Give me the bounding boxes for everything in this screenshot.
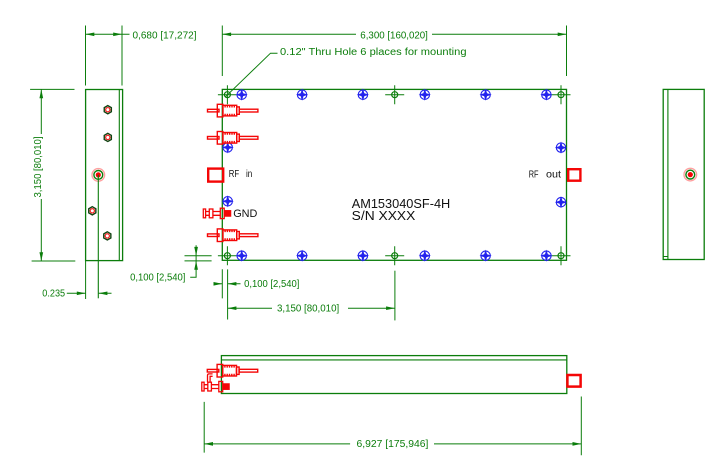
svg-text:0.12" Thru Hole 6 places for m: 0.12" Thru Hole 6 places for mounting	[280, 47, 467, 58]
dimension 0,100 first arrows	[194, 247, 198, 256]
bottom right-angle elbow	[208, 374, 213, 382]
nut N1	[104, 106, 111, 114]
SMA connector J1	[208, 104, 258, 117]
RF in connector end view	[92, 169, 105, 182]
mounting hole H6	[552, 246, 571, 265]
svg-text:6,927 [175,946]: 6,927 [175,946]	[357, 439, 429, 450]
svg-text:RF: RF	[229, 169, 239, 180]
dimension 3,150 left arrows	[39, 89, 43, 98]
bottom view outline	[221, 356, 566, 394]
dimension 0,100 first extension lines	[185, 256, 212, 261]
screw S7	[237, 251, 246, 260]
svg-text:3,150 [80,010]: 3,150 [80,010]	[33, 136, 44, 197]
svg-text:S/N XXXX: S/N XXXX	[352, 208, 416, 223]
dimension 6,300 line	[222, 33, 566, 35]
screw S16	[556, 198, 565, 207]
screw S15	[556, 143, 565, 152]
svg-text:0,100 [2,540]: 0,100 [2,540]	[244, 279, 300, 290]
left side view inner flange line	[118, 90, 120, 261]
screw S14	[223, 197, 232, 206]
screw S9	[358, 251, 367, 260]
left side view outline	[86, 90, 123, 261]
svg-text:GND: GND	[233, 208, 257, 220]
screw S5	[481, 90, 490, 99]
bottom RF out square	[567, 375, 580, 387]
right side view inner flange line	[663, 89, 668, 259]
mounting hole H5	[385, 246, 404, 265]
svg-text:0,100 [2,540]: 0,100 [2,540]	[130, 272, 186, 283]
mounting hole H3	[552, 85, 571, 104]
dimension 0,100 second line	[214, 283, 241, 285]
dimension 0,680 line	[86, 33, 130, 35]
dimension 3,150 bottom arrows	[228, 306, 237, 310]
dimension 6,927 extension lines	[204, 397, 581, 456]
svg-text:in: in	[246, 169, 252, 180]
dimension 6,927 arrows	[204, 442, 213, 446]
mounting hole H4	[218, 246, 237, 265]
svg-text:3,150 [80,010]: 3,150 [80,010]	[277, 303, 339, 314]
screw S1	[237, 90, 246, 99]
right side view outline	[663, 89, 704, 259]
dimension 0,100 second arrows	[214, 282, 223, 286]
RF out port square	[568, 169, 580, 181]
svg-text:RF: RF	[529, 170, 539, 181]
side view left edge extension	[85, 261, 87, 299]
nut N4	[104, 232, 111, 240]
screw S3	[358, 90, 367, 99]
nut N2	[104, 133, 111, 141]
dimension 3,150 bottom line	[228, 307, 395, 309]
dimension 0,100 first line	[190, 245, 196, 277]
screw S8	[297, 251, 306, 260]
svg-text:0,680 [17,272]: 0,680 [17,272]	[133, 30, 197, 41]
screw S4	[420, 90, 429, 99]
bottom SMA connector J4	[207, 364, 257, 377]
svg-text:0.235: 0.235	[42, 289, 65, 300]
main view outline	[222, 89, 566, 260]
bottom GND feedthrough FT2	[202, 381, 229, 391]
RF in port square	[208, 169, 223, 182]
mounting hole H1	[218, 85, 237, 104]
dimension 0.235 arrows	[77, 291, 86, 295]
screw S12	[542, 251, 551, 260]
dimension 0,680 extension lines	[86, 26, 123, 86]
thru-hole leader line	[225, 53, 277, 97]
screw S6	[542, 90, 551, 99]
svg-text:out: out	[546, 170, 561, 181]
screw S11	[481, 251, 490, 260]
svg-text:6,300 [160,020]: 6,300 [160,020]	[360, 30, 428, 41]
dimension 0,680 arrows	[86, 32, 95, 36]
SMA connector J2	[208, 132, 258, 145]
connector center leader line	[97, 175, 99, 298]
dimension 6,300 extension lines	[222, 26, 566, 77]
dimension 6,300 arrows	[222, 32, 231, 36]
SMA connector J3	[208, 229, 258, 242]
dimension 0.235 line	[67, 292, 112, 294]
mounting hole H2	[385, 85, 404, 104]
screw S13	[223, 143, 232, 152]
dimension 3,150 left line	[40, 89, 42, 261]
dimension 3,150 left extension lines	[30, 89, 75, 261]
dimension 3,150 bottom extension line	[394, 271, 396, 321]
RF out connector end view	[684, 168, 697, 181]
screw S2	[297, 90, 306, 99]
dimension 0,100 second extension lines	[222, 269, 227, 319]
GND feedthrough FT1	[203, 208, 230, 218]
dimension 6,927 line	[204, 443, 581, 445]
bottom view inner top line	[221, 359, 566, 361]
screw S10	[420, 251, 429, 260]
nut N3	[89, 207, 96, 215]
